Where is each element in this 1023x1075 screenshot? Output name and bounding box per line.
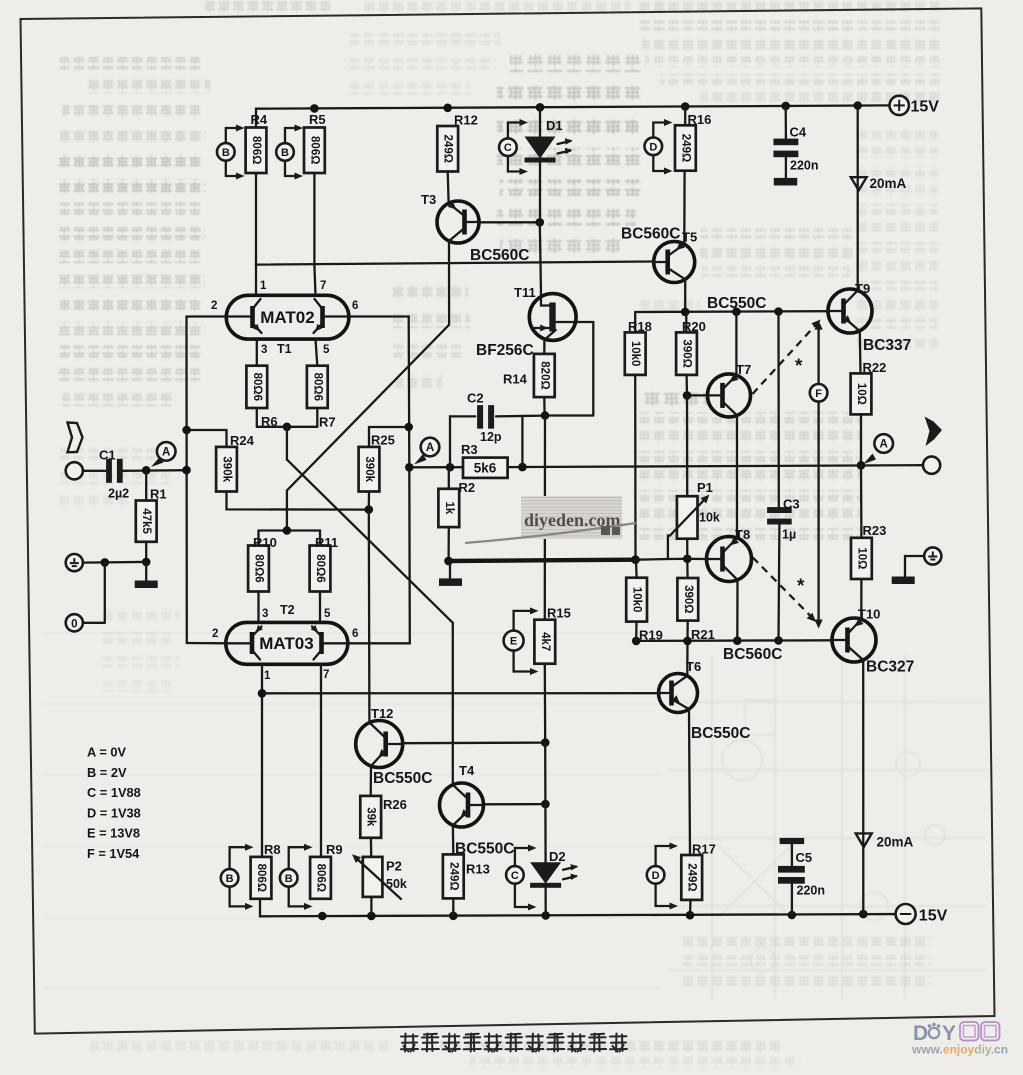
svg-text:80Ω6: 80Ω6 [311, 373, 323, 401]
transistor T9 BC337 [707, 281, 911, 354]
resistor R9 [310, 842, 343, 899]
resistor R1 [136, 470, 167, 562]
wire D1 node down to T11 [540, 222, 541, 294]
output arrow symbol [925, 417, 943, 447]
svg-text:C2: C2 [467, 391, 484, 406]
svg-text:A: A [880, 439, 888, 451]
node B indicator at R4 [217, 125, 245, 180]
svg-text:5: 5 [323, 344, 330, 356]
svg-text:B: B [226, 873, 234, 885]
svg-text:249Ω: 249Ω [679, 134, 691, 162]
resistor R3 [461, 442, 508, 478]
wire T6 emitter down to R17 [689, 712, 690, 856]
svg-text:B = 2V: B = 2V [87, 765, 127, 780]
svg-text:*: * [797, 576, 805, 597]
node C indicator at D1 [499, 119, 528, 175]
svg-text:MAT02: MAT02 [260, 308, 314, 327]
wire T10 collector to -15V [862, 662, 864, 914]
wire down to R15 [544, 416, 547, 620]
0V terminal [66, 562, 105, 631]
svg-text:249Ω: 249Ω [686, 863, 698, 891]
wire center column T12/T4 base segment [544, 743, 547, 805]
svg-text:1µ: 1µ [782, 528, 796, 542]
svg-text:A = 0V: A = 0V [87, 745, 126, 760]
node F indicator between T9 and T10 bases [810, 321, 828, 629]
svg-text:R5: R5 [309, 112, 326, 127]
svg-text:12p: 12p [480, 430, 502, 444]
svg-text:R25: R25 [371, 433, 395, 448]
resistor R7 [307, 339, 336, 429]
wire ground node to P1 bottom node [636, 558, 668, 561]
wire emitter tail join (upper) [257, 423, 318, 460]
wire second stage output line to T9 base [635, 307, 828, 316]
resistor R13 [443, 827, 490, 916]
svg-text:15V: 15V [911, 99, 940, 116]
transistor T5 BC560C [621, 226, 697, 283]
svg-text:C: C [504, 142, 512, 154]
node input / R1 junction [142, 466, 151, 475]
svg-text:BC560C: BC560C [723, 646, 782, 663]
wire P1 wiper jog [668, 536, 687, 560]
transistor T8 BC560C [707, 527, 752, 582]
svg-text:A: A [426, 442, 434, 454]
node A indicator at output [874, 434, 893, 453]
node: D1 cathode / T3 base / T11 gate junction [536, 218, 545, 227]
svg-text:10k0: 10k0 [629, 341, 641, 367]
-15V terminal [896, 904, 948, 925]
svg-text:820Ω: 820Ω [538, 361, 550, 389]
svg-text:80Ω6: 80Ω6 [314, 554, 326, 582]
svg-text:E: E [510, 636, 517, 648]
resistor R25 [359, 423, 413, 514]
wire P1 bottom to node [686, 539, 688, 559]
dashed pairing arrow T8-T10 [753, 558, 816, 623]
svg-text:BC327: BC327 [866, 659, 914, 676]
svg-text:R11: R11 [315, 535, 338, 550]
wire emitter tail join (lower) [259, 526, 321, 535]
wire MAT02 pin1 [255, 265, 257, 296]
svg-text:B: B [285, 873, 293, 885]
svg-text:T12: T12 [371, 706, 393, 721]
svg-text:T8: T8 [735, 527, 750, 542]
wire -15V rail [260, 899, 896, 921]
resistor R26 [360, 767, 407, 857]
svg-text:R22: R22 [863, 360, 887, 375]
svg-text:B: B [281, 147, 289, 159]
wire T8 base [687, 558, 706, 561]
wire T9 emitter to R22 [859, 333, 862, 374]
node B indicator at R5 [276, 125, 303, 180]
node D indicator at R16 [645, 119, 673, 175]
node A indicator at input [157, 442, 176, 461]
resistor R14 [503, 340, 555, 415]
svg-text:806Ω: 806Ω [315, 864, 327, 892]
svg-text:C = 1V88: C = 1V88 [87, 785, 141, 800]
diode D2 LED [530, 804, 578, 915]
20mA marker top [851, 176, 907, 191]
node P1/R21/T8 base junction [683, 555, 692, 564]
transistor T10 BC327 [832, 607, 914, 676]
svg-text:B: B [222, 147, 230, 159]
resistor R21 [677, 559, 714, 642]
wire MAT03 pin1 down [261, 664, 263, 857]
earth terminal output [892, 547, 942, 584]
input terminal [66, 462, 83, 479]
svg-text:R15: R15 [547, 606, 571, 621]
svg-text:5k6: 5k6 [474, 461, 497, 476]
wire T10 emitter up to R23 [860, 579, 862, 619]
node input line / left base vertical junction [182, 466, 191, 475]
svg-text:www.enjoydiy.cn: www.enjoydiy.cn [911, 1043, 1008, 1057]
svg-text:80Ω6: 80Ω6 [251, 373, 263, 401]
resistor R4 [246, 112, 268, 265]
svg-text:390Ω: 390Ω [682, 585, 694, 613]
svg-text:249Ω: 249Ω [447, 862, 459, 890]
legend voltage table [87, 745, 141, 862]
output terminal [923, 457, 940, 474]
dual transistor T2 MAT03 [212, 603, 358, 682]
node B indicator at R9 [280, 844, 313, 910]
wire MAT03 pin2 [187, 642, 226, 645]
svg-text:390k: 390k [221, 456, 233, 482]
capacitor C2 [450, 391, 545, 468]
svg-text:D2: D2 [549, 849, 566, 864]
wire first stage output line to T6 base [262, 692, 659, 694]
wire node A feedback line [405, 461, 923, 472]
svg-text:39k: 39k [365, 807, 377, 827]
svg-text:BC550C: BC550C [691, 725, 750, 742]
capacitor C1 [83, 448, 187, 501]
svg-text:D: D [652, 870, 660, 882]
svg-text:T1: T1 [277, 342, 292, 356]
wire collector bus y=263 (MAT02 collectors to T5 base) [256, 262, 654, 265]
resistor R17 [681, 842, 716, 916]
svg-text:806Ω: 806Ω [255, 864, 267, 892]
svg-text:T7: T7 [736, 362, 751, 377]
svg-text:BC550C: BC550C [373, 770, 432, 787]
svg-text:C5: C5 [796, 850, 813, 865]
node MAT03 pin1 / T6 base line junction [258, 689, 267, 698]
wire MAT02 pin6 to node A vertical [349, 317, 409, 468]
ground below R1 [135, 558, 158, 588]
wire T4 base to center column [484, 803, 546, 806]
svg-text:F: F [815, 388, 822, 400]
caption text 纯甲类前置放大器电路图 (simulated glyph blocks) [401, 1034, 627, 1052]
resistor R15 [534, 606, 570, 743]
svg-text:R21: R21 [691, 627, 715, 642]
svg-text:1: 1 [260, 280, 267, 292]
svg-text:50k: 50k [386, 877, 407, 891]
svg-text:806Ω: 806Ω [250, 136, 262, 164]
wire R19/R21 bottom line to T10 base [632, 636, 832, 645]
wire T12 base to center column [403, 741, 546, 744]
resistor R20 [676, 312, 706, 395]
transistor T3 BC560C [421, 192, 529, 264]
svg-text:C3: C3 [783, 497, 800, 512]
transistor T11 BF256C JFET [476, 285, 576, 359]
+15V terminal [890, 96, 940, 116]
svg-text:MAT03: MAT03 [259, 634, 313, 653]
wire MAT02 pin2 to left vertical [187, 315, 227, 317]
svg-text:2: 2 [212, 628, 218, 640]
resistor R6 [246, 339, 277, 429]
wire T3 base to D1 node [479, 221, 540, 223]
capacitor C4 [773, 106, 818, 186]
svg-text:R13: R13 [466, 862, 490, 877]
capacitor C5 [778, 838, 825, 915]
svg-text:T5: T5 [682, 230, 697, 245]
svg-text:15V: 15V [919, 908, 948, 925]
svg-text:4k7: 4k7 [539, 632, 551, 651]
svg-text:10k0: 10k0 [631, 587, 643, 613]
resistor R10 [248, 531, 277, 623]
svg-text:P1: P1 [697, 480, 713, 495]
svg-text:249Ω: 249Ω [442, 135, 454, 163]
wire MAT02 pin7 [314, 265, 315, 296]
svg-text:R18: R18 [628, 319, 652, 334]
svg-text:C: C [511, 870, 519, 882]
resistor R18 [625, 312, 652, 560]
wire T6 collector up to R21 node [686, 641, 689, 675]
earth terminal input [66, 554, 146, 571]
resistor R23 [851, 465, 886, 579]
wire left base vertical down to MAT03 pin2 [185, 317, 188, 644]
svg-text:3: 3 [261, 344, 267, 356]
resistor R12 [437, 113, 478, 203]
dual transistor T1 MAT02 [211, 280, 358, 356]
svg-text:E = 13V8: E = 13V8 [87, 826, 140, 841]
svg-text:BC560C: BC560C [621, 226, 680, 243]
wire T8 collector down [736, 581, 739, 640]
wire R25 node down to T12 collector [368, 510, 371, 723]
resistor R5 [304, 112, 326, 265]
svg-text:20mA: 20mA [877, 835, 914, 850]
svg-text:1: 1 [264, 670, 271, 682]
svg-text:R16: R16 [688, 112, 712, 127]
svg-text:R19: R19 [639, 628, 663, 643]
svg-text:5: 5 [324, 608, 331, 620]
svg-text:47k5: 47k5 [140, 508, 152, 534]
svg-text:*: * [795, 356, 803, 377]
decorative DIY logo [911, 1022, 1008, 1057]
svg-text:A: A [162, 447, 170, 459]
svg-text:R12: R12 [454, 113, 478, 128]
svg-text:R26: R26 [383, 797, 407, 812]
svg-text:D = 1V38: D = 1V38 [87, 805, 141, 820]
wire R20 to P1 [686, 395, 689, 496]
svg-text:10Ω: 10Ω [855, 383, 867, 405]
svg-text:20mA: 20mA [870, 176, 907, 191]
transistor T6 BC550C [659, 659, 751, 742]
svg-text:R23: R23 [863, 523, 887, 538]
svg-text:R10: R10 [253, 535, 277, 550]
wire T11 drain loop [545, 322, 593, 416]
svg-text:D1: D1 [546, 118, 563, 133]
capacitor C3 [767, 312, 800, 641]
svg-text:D: D [649, 141, 657, 153]
ground reference bold wire [439, 555, 640, 586]
svg-text:390k: 390k [363, 456, 375, 482]
wire T9 collector to +15V [857, 106, 859, 290]
resistor R24 [182, 426, 368, 510]
svg-text:2: 2 [211, 300, 217, 312]
svg-text:R14: R14 [503, 372, 528, 387]
dashed pairing arrow T7-T9 [753, 320, 821, 395]
svg-text:R1: R1 [150, 487, 167, 502]
wire T7 base from R20/P1 node [687, 394, 708, 396]
wire T3 collector to tail (diagonal) [287, 242, 449, 531]
node E indicator at R15 [504, 607, 539, 675]
wire cross-coupling diagonal to T4 current source [287, 460, 453, 784]
svg-text:R4: R4 [251, 112, 268, 127]
resistor R19 [626, 560, 663, 643]
svg-text:BC550C: BC550C [707, 295, 766, 312]
diode D1 LED [525, 107, 573, 222]
svg-text:T4: T4 [459, 763, 475, 778]
svg-text:2µ2: 2µ2 [108, 487, 129, 501]
svg-text:390Ω: 390Ω [681, 339, 693, 367]
svg-text:R7: R7 [319, 415, 336, 430]
resistor R11 [310, 531, 339, 623]
svg-text:C1: C1 [99, 448, 116, 463]
wire T7 emitter up [735, 312, 737, 376]
svg-text:80Ω6: 80Ω6 [253, 554, 265, 582]
node A indicator mid [421, 438, 440, 457]
svg-text:R2: R2 [459, 480, 476, 495]
svg-text:806Ω: 806Ω [308, 136, 320, 164]
svg-text:BF256C: BF256C [476, 342, 534, 359]
node T4 base junction [541, 800, 550, 809]
svg-text:7: 7 [320, 280, 326, 292]
svg-text:C4: C4 [790, 125, 807, 140]
resistor R22 [851, 360, 887, 465]
potentiometer P2 [352, 854, 407, 916]
svg-text:220n: 220n [790, 159, 819, 173]
svg-text:T3: T3 [421, 192, 436, 207]
node C indicator at D2 [506, 845, 536, 911]
wire +15V rail [256, 101, 890, 127]
potentiometer P1 [670, 480, 720, 539]
resistor R8 [251, 842, 281, 899]
node B indicator at R8 [221, 844, 254, 910]
node T12 base junction [541, 738, 550, 747]
input arrow symbol [68, 423, 83, 453]
svg-text:10Ω: 10Ω [855, 547, 867, 569]
resistor R2 [438, 467, 475, 561]
svg-text:BC337: BC337 [863, 337, 911, 354]
20mA marker bottom [856, 833, 914, 849]
svg-text:R24: R24 [230, 433, 255, 448]
transistor T7 BC560C [708, 362, 752, 417]
svg-text:10k: 10k [699, 511, 720, 525]
svg-text:T11: T11 [514, 285, 536, 300]
svg-text:220n: 220n [797, 884, 826, 898]
wire T7 collector down to T8 emitter [736, 417, 738, 537]
transistor T4 BC550C [440, 763, 515, 858]
svg-text:3: 3 [262, 608, 268, 620]
transistor T12 BC550C [356, 706, 433, 787]
node R14/C2/T11 junction [541, 411, 550, 420]
resistor R16 [675, 107, 711, 243]
svg-text:F = 1V54: F = 1V54 [87, 846, 140, 861]
svg-text:6: 6 [352, 300, 358, 312]
svg-text:P2: P2 [386, 859, 402, 874]
svg-text:R17: R17 [692, 842, 716, 857]
svg-text:T2: T2 [280, 603, 295, 617]
wire T5 collector down to T9 base line [684, 281, 686, 312]
svg-text:R9: R9 [326, 842, 343, 857]
decorative watermark diyeden [465, 496, 636, 543]
svg-text:R3: R3 [461, 442, 478, 457]
svg-text:0: 0 [71, 618, 77, 630]
wire MAT03 pin7 down to R9 [320, 664, 322, 857]
svg-text:R8: R8 [264, 842, 281, 857]
svg-text:1k: 1k [443, 502, 455, 515]
wire MAT03 pin6 up to node A line [348, 467, 410, 643]
node D indicator at R17 [647, 843, 678, 910]
svg-text:6: 6 [352, 628, 358, 640]
svg-text:7: 7 [323, 669, 329, 681]
